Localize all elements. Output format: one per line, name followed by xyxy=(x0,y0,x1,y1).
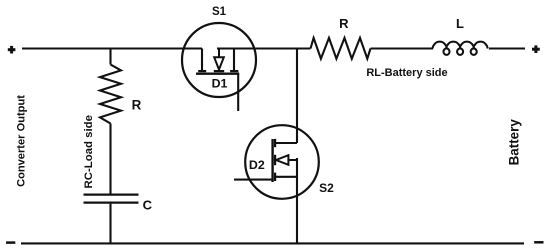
inductor L xyxy=(433,42,488,55)
S1 source leg (right, from top bus down) xyxy=(233,49,235,71)
wire: top bus from D1 anode tee through S1 source to R xyxy=(217,47,311,49)
wire: bottom return bus xyxy=(21,242,524,244)
wire: top bus between R and L xyxy=(371,47,434,49)
S2 source contact bar xyxy=(274,173,276,181)
svg-text:C: C xyxy=(143,198,153,213)
terminal + (battery positive) xyxy=(532,45,540,53)
terminal - (converter output negative) xyxy=(6,241,15,244)
svg-text:D2: D2 xyxy=(249,158,265,172)
capacitor C plate bottom xyxy=(84,201,139,203)
diode D1 triangle xyxy=(214,57,224,69)
resistor R (vertical, RC load) xyxy=(100,65,121,124)
S2 drain contact bar xyxy=(274,139,276,147)
svg-text:Battery: Battery xyxy=(507,119,522,166)
svg-text:L: L xyxy=(456,16,464,31)
diode D1 cathode lead xyxy=(218,69,220,70)
wire: top bus from left terminal to S1 drain leg xyxy=(22,47,202,49)
S2 source leg (bottom, from mid branch leftward) xyxy=(276,176,297,178)
wire: RC branch drop from top bus to resistor R xyxy=(109,49,111,65)
terminal + (converter output positive) xyxy=(8,46,16,54)
wire: mid branch from top bus to S2 drain leg xyxy=(296,49,298,144)
svg-text:S2: S2 xyxy=(319,181,334,195)
diode D2 anode lead xyxy=(288,159,297,161)
svg-text:RC-Load side: RC-Load side xyxy=(83,115,95,188)
S1 drain leg (left, from top bus down) xyxy=(201,49,203,71)
S1 drain contact bar xyxy=(198,70,206,72)
wire: capacitor C to bottom bus xyxy=(109,204,111,244)
wire: top bus from L to right terminal xyxy=(489,47,525,49)
S2 channel bar xyxy=(271,139,273,182)
S2 drain leg (top, from mid branch leftward) xyxy=(276,142,297,144)
D2 cathode contact bar xyxy=(274,155,276,165)
diode D1 anode lead xyxy=(218,49,220,58)
svg-text:RL-Battery side: RL-Battery side xyxy=(366,67,447,79)
wire: mid branch from D2 anode tee to bottom bus xyxy=(296,158,298,243)
svg-text:R: R xyxy=(339,16,349,31)
diode D2 cathode lead xyxy=(275,159,277,161)
terminal - (battery negative) xyxy=(534,241,543,244)
S1 source contact bar xyxy=(230,70,238,72)
switch S2: enclosing circle xyxy=(245,125,319,199)
S2 gate stub xyxy=(234,179,273,181)
svg-text:Converter Output: Converter Output xyxy=(16,95,28,187)
diode D2 triangle xyxy=(276,155,288,165)
svg-text:D1: D1 xyxy=(212,77,228,91)
capacitor C plate top xyxy=(84,193,139,195)
svg-text:R: R xyxy=(132,98,142,113)
D1 cathode contact bar xyxy=(214,70,224,72)
S1 gate stub xyxy=(237,74,239,111)
resistor R (horizontal, battery side) xyxy=(311,38,371,59)
S1 channel bar xyxy=(196,72,239,74)
switch S1: enclosing circle xyxy=(182,23,256,97)
wire: between resistor R and capacitor C xyxy=(109,124,111,194)
svg-text:S1: S1 xyxy=(212,6,227,18)
